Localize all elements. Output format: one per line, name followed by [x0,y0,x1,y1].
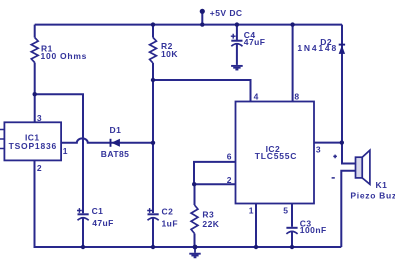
svg-text:4: 4 [254,91,259,101]
svg-text:1: 1 [249,205,254,215]
svg-text:1: 1 [63,146,68,156]
svg-text:5: 5 [283,205,288,215]
svg-text:TSOP1836: TSOP1836 [9,141,57,151]
svg-text:Piezo Buzzer: Piezo Buzzer [350,191,395,201]
svg-text:2: 2 [37,163,42,173]
svg-text:1uF: 1uF [162,219,178,229]
svg-text:100 Ohms: 100 Ohms [41,51,88,61]
svg-text:3: 3 [316,145,321,155]
svg-text:47uF: 47uF [92,218,114,228]
svg-text:C1: C1 [92,206,104,216]
svg-text:6: 6 [227,151,232,161]
svg-text:47uF: 47uF [244,37,266,47]
svg-text:22K: 22K [202,219,219,229]
svg-text:100nF: 100nF [300,225,327,235]
svg-text:3: 3 [37,113,42,123]
svg-text:D1: D1 [110,125,122,135]
svg-text:C2: C2 [162,206,174,216]
svg-text:+5V DC: +5V DC [210,8,243,18]
svg-text:K1: K1 [376,180,388,190]
svg-text:10K: 10K [161,49,178,59]
svg-text:2: 2 [227,175,232,185]
svg-text:TLC555C: TLC555C [255,151,297,161]
svg-text:8: 8 [294,91,299,101]
svg-text:BAT85: BAT85 [101,149,130,159]
svg-text:1N4148: 1N4148 [297,43,338,53]
